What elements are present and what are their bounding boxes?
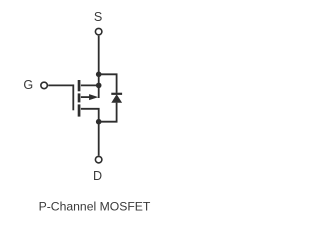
MOSFET Q1 source contact bar bbox=[78, 80, 81, 91]
svg-text:P-Channel MOSFET: P-Channel MOSFET bbox=[39, 200, 151, 214]
svg-text:D: D bbox=[93, 169, 102, 183]
svg-text:G: G bbox=[23, 78, 33, 92]
wire: S terminal to node A bbox=[98, 36, 100, 75]
node A (source/diode junction) bbox=[96, 72, 102, 78]
wire: node C to D terminal bbox=[98, 122, 100, 156]
MOSFET Q1 body arrowhead (P-channel) bbox=[89, 94, 98, 100]
wire: G terminal to gate bar bbox=[48, 84, 73, 86]
wire: diode anode to node C bbox=[101, 103, 117, 122]
MOSFET Q1 drain contact bar bbox=[78, 104, 81, 116]
wire: node B to body arrow corner bbox=[98, 85, 100, 98]
MOSFET Q1 body contact bar bbox=[78, 93, 81, 102]
body diode D1 bbox=[111, 93, 122, 103]
drain terminal circle D bbox=[95, 156, 102, 163]
gate terminal circle G bbox=[41, 82, 48, 89]
svg-text:S: S bbox=[94, 10, 102, 24]
wire: node A to diode cathode bbox=[99, 74, 117, 93]
wire: node B to MOSFET source contact bbox=[81, 84, 99, 86]
MOSFET Q1 body lead with arrow bbox=[81, 96, 91, 98]
MOSFET Q1 gate bar bbox=[72, 84, 74, 110]
source terminal circle S bbox=[95, 28, 102, 35]
node C (drain/diode junction) bbox=[96, 119, 102, 125]
wire: MOSFET drain contact to node C bbox=[81, 109, 99, 122]
node B (source contact junction) bbox=[96, 83, 102, 89]
wire: node A to node B bbox=[98, 74, 100, 85]
